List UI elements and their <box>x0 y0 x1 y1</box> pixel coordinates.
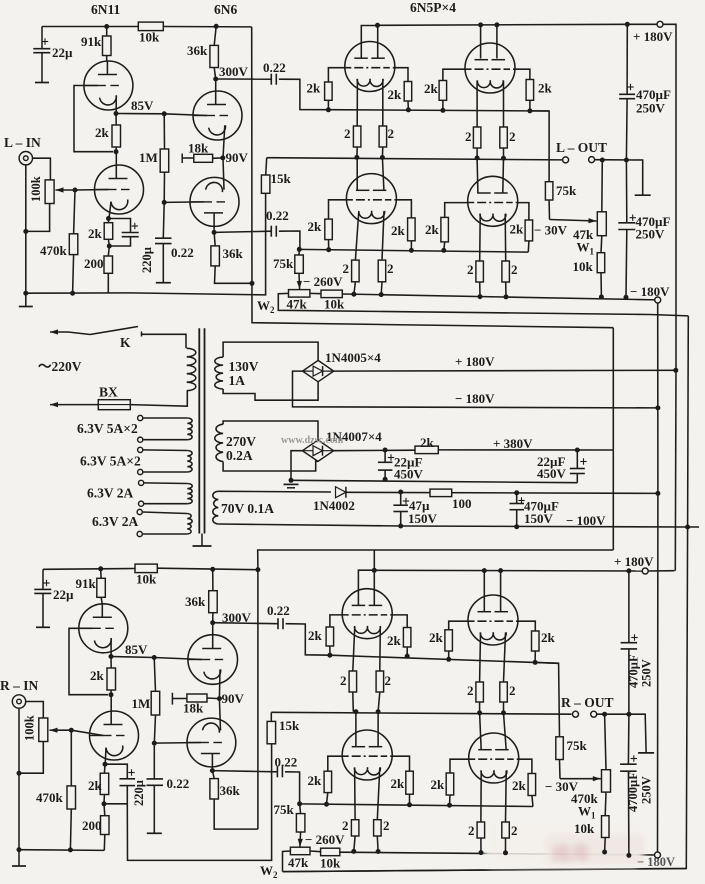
winding 130V 1A <box>215 357 223 389</box>
wire: 36k lower to B+ (R) <box>214 799 258 829</box>
junction W2 bus -100V <box>685 525 690 530</box>
svg-text:2: 2 <box>344 126 351 141</box>
svg-text:47k: 47k <box>287 297 308 312</box>
wire: L -180V cathode rail <box>342 294 657 300</box>
svg-text:− 100V: − 100V <box>566 513 606 528</box>
terminal L-OUT a <box>563 157 569 163</box>
junction V1b cathode <box>106 216 111 221</box>
svg-text:2k: 2k <box>387 633 402 648</box>
wiper arrow W2 (L) <box>298 273 301 289</box>
wiper arrow W1 (L) <box>550 220 597 222</box>
wire: 0.22 to top grid rail <box>279 79 328 110</box>
svg-text:2k: 2k <box>308 219 323 234</box>
svg-text:2: 2 <box>509 129 516 144</box>
junction 470uF bottom <box>624 295 629 300</box>
wire: V9 cathode leads <box>354 768 357 820</box>
junction V3 plate/rail <box>375 23 380 28</box>
junction V2b grid node (R) <box>152 741 157 746</box>
wire: R B+ rail top <box>43 568 135 571</box>
wire: +380V rail <box>334 449 415 452</box>
svg-text:150V: 150V <box>408 511 438 526</box>
wire: V4 cathode leads <box>476 81 478 128</box>
svg-text:100k: 100k <box>23 715 37 741</box>
wire: V7 right grid <box>392 615 407 628</box>
junction -100V bus <box>655 491 660 496</box>
junction 2k/200 (R) <box>102 801 107 806</box>
wire: R channel B+ feed <box>258 550 614 570</box>
resistor 2 V4 cathode left <box>473 127 481 148</box>
svg-text:130V: 130V <box>229 359 259 374</box>
capacitor 0.22 coupling (R upper) <box>213 623 278 624</box>
resistor 2k V1b cathode <box>108 219 110 223</box>
wire: jack to pot <box>33 158 51 180</box>
resistor 36k (L lower) <box>214 232 215 246</box>
capacitor 470uF 150V (psu) <box>516 493 518 504</box>
tube 6N5P V3 (L top-left) <box>345 42 395 92</box>
resistor 18k (R) <box>171 693 173 705</box>
svg-text:450V: 450V <box>394 467 424 482</box>
resistor 2 V5 cathode left <box>352 260 360 282</box>
svg-text:2k: 2k <box>90 668 105 683</box>
resistor 2k V1a cathode (R) <box>110 657 112 669</box>
junction V4 cathodes out rail <box>475 156 480 161</box>
junction 91k top <box>104 24 109 29</box>
svg-text:470k: 470k <box>36 790 64 805</box>
wire: +380V rail right <box>438 449 613 451</box>
wire: V2a cathode to 90V (R) <box>218 670 221 699</box>
resistor 2k V9 left grid <box>324 771 332 792</box>
resistor 2k V1b cathode (R) <box>103 764 106 773</box>
wire: V3 plate leads <box>361 26 377 59</box>
svg-text:2: 2 <box>385 673 392 688</box>
svg-text:2: 2 <box>342 818 349 833</box>
junction 85V node (R) <box>109 654 114 659</box>
svg-text:200: 200 <box>82 818 102 833</box>
junction -180V bus / PSU <box>655 405 660 410</box>
svg-text:2: 2 <box>511 823 518 838</box>
wire: V4 right grid <box>515 69 530 79</box>
svg-text:− 260V: − 260V <box>305 832 345 847</box>
resistor 2k V8 left grid <box>445 630 453 651</box>
junction V1b cathode (R) <box>103 762 108 767</box>
wire: L ground rail to 15k <box>26 193 266 295</box>
wire: L B+ drop to PSU +380V <box>252 27 614 328</box>
wire: -100V bottom rail <box>218 524 699 527</box>
resistor 2k V10 right grid <box>528 774 536 796</box>
svg-text:22µ: 22µ <box>52 45 73 60</box>
ground bridge2 <box>284 483 299 485</box>
svg-text:18k: 18k <box>188 140 209 155</box>
junction V8 lgrid <box>446 657 451 662</box>
resistor 10k (R W1 leg) <box>604 792 607 816</box>
junction 47u top <box>398 490 403 495</box>
svg-text:200: 200 <box>84 256 104 271</box>
wire: V3 cathode leads <box>356 79 358 126</box>
resistor 10k (L plate decoupling) <box>138 22 163 31</box>
junction 22uF-1 top <box>383 448 388 453</box>
tube V2b 6N6 lower inverted (R) <box>187 718 236 767</box>
junction 470uF mid (R) <box>626 712 631 717</box>
svg-text:2: 2 <box>465 129 472 144</box>
bridge rectifier 1N4005x4 <box>303 360 334 381</box>
junction V4 right grid rail <box>527 108 532 113</box>
svg-text:15k: 15k <box>271 171 292 186</box>
capacitor 0.22 (L grid) <box>162 202 165 238</box>
transformer core <box>198 328 200 533</box>
wire: R -180V cathode rail <box>340 852 658 855</box>
capacitor 220µ (R) <box>105 764 127 778</box>
svg-text:90V: 90V <box>226 150 249 165</box>
resistor 15k (R) <box>270 712 272 721</box>
svg-text:2: 2 <box>383 818 390 833</box>
junction 470k bottom <box>70 291 75 296</box>
capacitor 0.22 grid (R) <box>153 743 155 779</box>
capacitor 470uF (L upper) <box>626 24 628 94</box>
junction wiper/470k (R) <box>69 728 74 733</box>
svg-text:0.22: 0.22 <box>171 245 194 260</box>
svg-text:6N5P×4: 6N5P×4 <box>410 0 456 15</box>
wire: 270V box top <box>223 421 318 440</box>
wire: -180V bus <box>657 303 659 852</box>
resistor 470k (R) <box>70 730 72 786</box>
wire: V2b plate lead <box>213 213 215 232</box>
wire: L output rail <box>267 158 563 160</box>
junction V4 plate rail <box>478 22 483 27</box>
winding 70V 0.1A <box>213 491 219 524</box>
junction 90V node <box>220 155 225 160</box>
resistor 2 V10 cath left <box>477 822 485 838</box>
junction V4 left grid rail <box>440 108 445 113</box>
wire: W2-left bus right edge <box>283 316 688 872</box>
resistor 2k V5 right grid <box>408 218 416 241</box>
svg-text:0.22: 0.22 <box>275 755 298 770</box>
svg-text:2k: 2k <box>308 628 323 643</box>
junction V2b grid node <box>162 200 167 205</box>
wire: 85V rail (R) <box>111 657 202 660</box>
tube V1b 6N11 lower (R) <box>90 711 139 760</box>
resistor 2 V8 cath left <box>476 682 484 702</box>
wire: R-OUT to caps node <box>597 714 646 752</box>
heater winding 4 <box>137 509 142 514</box>
capacitor 22µ (R) <box>42 569 44 589</box>
svg-text:10k: 10k <box>320 856 341 871</box>
junction V7 lgrid rail <box>327 653 332 658</box>
svg-text:75k: 75k <box>556 183 577 198</box>
junction 2k/200 <box>107 244 112 249</box>
wire: V3 left grid <box>328 68 344 82</box>
resistor 75k (L bias) <box>298 249 300 255</box>
wire: 90V to V2b cathode <box>223 158 224 190</box>
svg-text:47k: 47k <box>288 855 309 870</box>
wire: V8 right grid <box>518 621 535 631</box>
junction V2b plate node <box>212 230 217 235</box>
wire: W2 left bracket <box>278 293 688 316</box>
junction V8 plate rail <box>482 568 487 573</box>
wire: V6 cathode leads <box>479 214 482 261</box>
wire: V10 plate leads <box>480 713 482 750</box>
resistor 75k (L feedback) <box>545 182 553 200</box>
resistor 2k V3 right grid <box>404 82 412 102</box>
junction 47u bottom <box>398 524 403 529</box>
junction V7 rgrid rail <box>405 654 410 659</box>
tube 6N5P V7 (R top-left) <box>342 589 392 639</box>
svg-text:10k: 10k <box>136 572 157 587</box>
tube V1a 6N11 upper (R) <box>79 604 128 653</box>
resistor 2k V8 right grid <box>532 631 540 651</box>
resistor 2 V10 cath right <box>502 822 510 838</box>
junction V1b plate node <box>114 149 119 154</box>
wire: V1a grid to V1b plate node (R) <box>69 628 108 694</box>
diode 1N4002 <box>218 490 331 493</box>
wire: 90V to V2b cathode (R) <box>219 699 220 731</box>
svg-text:K: K <box>120 335 131 350</box>
svg-text:0.22: 0.22 <box>267 603 290 618</box>
wire: V5 right grid <box>397 200 412 218</box>
junction 470k bottom (R) <box>68 847 73 852</box>
svg-text:270V: 270V <box>226 434 256 449</box>
transformer core ground <box>201 534 203 546</box>
junction V5 lgrid rail <box>326 247 331 252</box>
junction V6 lgrid rail <box>441 248 446 253</box>
svg-text:250V: 250V <box>636 227 666 242</box>
terminal L-OUT b <box>589 157 595 163</box>
fuse BX arrow <box>50 404 74 406</box>
svg-text:36k: 36k <box>220 783 241 798</box>
svg-text:300V: 300V <box>219 64 249 79</box>
junction 36k top <box>214 24 219 29</box>
svg-text:2: 2 <box>340 673 347 688</box>
junction L ground rail <box>23 291 28 296</box>
wire: V9 right grid <box>392 756 409 771</box>
wire: V4 left grid <box>443 69 465 80</box>
ground R input <box>18 850 20 866</box>
junction 85V node <box>114 111 119 116</box>
bridge rectifier 1N4007x4 <box>302 440 333 461</box>
ground 22µ (R) <box>36 626 50 628</box>
svg-text:4700µF: 4700µF <box>626 772 640 812</box>
svg-text:+ 180V: + 180V <box>633 29 673 44</box>
svg-text:BX: BX <box>99 385 118 400</box>
wire: wiper to V1b grid <box>75 189 109 192</box>
wire: L-OUT to caps node <box>595 160 643 195</box>
tube 6N5P V8 (R top-right) <box>468 595 518 645</box>
potentiometer W1 47k (L) <box>597 212 606 236</box>
junction 36k top (R) <box>210 567 215 572</box>
potentiometer 100k (L) <box>45 180 54 204</box>
svg-text:2k: 2k <box>424 81 439 96</box>
junction V7 cath rail <box>353 709 358 714</box>
junction R feed <box>255 567 260 572</box>
resistor 2k V7 right grid <box>403 628 411 648</box>
wire: R B+ drop <box>257 570 259 829</box>
svg-text:10k: 10k <box>574 821 595 836</box>
junction 300V node (R) <box>210 620 215 625</box>
svg-text:10k: 10k <box>573 259 594 274</box>
wire: 75k to W1 wiper <box>548 200 550 220</box>
junction 75k top (R) <box>297 801 302 806</box>
wire: V5 cathode leads <box>355 211 358 260</box>
resistor 2 V6 cathode right <box>502 261 510 282</box>
capacitor 4700uF (R lower) <box>627 714 630 764</box>
resistor 1M (R) <box>154 658 155 692</box>
junction 1M top (R) <box>152 655 157 660</box>
wire: V8 left grid <box>449 621 469 630</box>
resistor 75k (R bias) <box>300 804 301 814</box>
resistor 1M (L) <box>163 114 165 149</box>
wire: L B+ rail top <box>42 26 138 28</box>
potentiometer 100k (R) <box>39 718 48 742</box>
resistor 91k (R) <box>100 569 102 579</box>
wire: V4 plate leads <box>480 25 482 59</box>
resistor 2k V7 left grid <box>326 627 334 646</box>
resistor 2k (psu) <box>415 446 438 454</box>
capacitor 22µ (L) <box>41 27 43 49</box>
junction V9 lgrid <box>324 802 329 807</box>
wire: V7 plate leads <box>358 570 374 605</box>
capacitor 47u 150V <box>400 492 402 505</box>
wire: V5 plate leads <box>356 157 358 190</box>
junction 300V node <box>213 77 218 82</box>
wire: psu box right edge <box>612 328 614 550</box>
svg-text:2k: 2k <box>420 435 435 450</box>
wiper arrow W2 (R) <box>299 832 302 847</box>
junction 2k/grid rail r <box>406 107 411 112</box>
svg-text:2: 2 <box>468 823 475 838</box>
svg-text:10k: 10k <box>139 30 160 45</box>
junction 91k top (R) <box>98 566 103 571</box>
tube 6N5P V4 (L top-right) <box>465 43 515 93</box>
wire: 1M to V2b grid (R) <box>154 742 201 745</box>
junction V7 plate/rail <box>372 568 377 573</box>
svg-text:6.3V 5A×2: 6.3V 5A×2 <box>80 454 141 469</box>
svg-text:2k: 2k <box>541 630 556 645</box>
wire: pot cold end (R) <box>19 742 43 774</box>
svg-text:15k: 15k <box>279 718 300 733</box>
svg-text:0.2A: 0.2A <box>226 448 253 463</box>
ground L input <box>25 293 27 306</box>
capacitor 22uF 450V (1) <box>384 450 386 462</box>
resistor 2k V10 left grid <box>446 773 454 795</box>
svg-text:470k: 470k <box>40 243 68 258</box>
resistor 2k V1a cathode <box>115 114 117 126</box>
svg-text:220µ: 220µ <box>140 247 154 273</box>
svg-text:2: 2 <box>387 261 394 276</box>
svg-text:2: 2 <box>343 261 350 276</box>
resistor 2 V9 cath right <box>374 820 382 836</box>
junction V5 cathodes -180 rail <box>351 292 356 297</box>
svg-text:470µF: 470µF <box>627 654 641 688</box>
junction bridge2 minus rail <box>289 478 294 483</box>
fuse BX <box>74 404 98 406</box>
junction W1 top (R) <box>602 712 607 717</box>
watermark logo blur <box>484 816 645 868</box>
resistor 100 (psu) <box>430 489 452 497</box>
wiper arrow 100k (L) <box>56 189 76 191</box>
svg-text:L – OUT: L – OUT <box>556 140 607 155</box>
svg-text:100k: 100k <box>29 176 43 202</box>
wire: V1b cathode lead (R) <box>104 748 107 765</box>
svg-text:85V: 85V <box>125 642 148 657</box>
ground R-OUT return <box>638 752 654 754</box>
resistor 15k (L) <box>266 158 267 175</box>
junction V8 cath rail <box>477 710 482 715</box>
svg-text:6N6: 6N6 <box>214 2 237 17</box>
junction 2k/grid rail <box>326 107 331 112</box>
svg-text:36k: 36k <box>223 246 244 261</box>
resistor 10k (L bias) <box>310 292 321 294</box>
wire: 1M to V2b grid <box>164 201 204 204</box>
resistor 2k V4 right grid <box>526 80 534 101</box>
svg-text:www.dzsc.com: www.dzsc.com <box>281 435 344 446</box>
potentiometer W1 470k (R) <box>602 770 611 792</box>
wire: bridge1 minus to -180V line <box>293 371 658 408</box>
tube V1a 6N11 upper <box>84 61 133 110</box>
junction 10k bottom (R) <box>602 850 607 855</box>
svg-text:6.3V 2A: 6.3V 2A <box>87 486 134 501</box>
wire: V6 right grid <box>518 203 529 220</box>
junction 470uF mid <box>624 158 629 163</box>
junction V2b plate node (R) <box>210 768 215 773</box>
heater winding 2 <box>138 447 143 452</box>
svg-text:0.22: 0.22 <box>263 60 286 75</box>
svg-text:1M: 1M <box>139 150 158 165</box>
resistor 91k (L) <box>106 27 108 37</box>
svg-text:2k: 2k <box>308 773 323 788</box>
junction V5 rgrid rail <box>409 248 414 253</box>
wire: 70V rail <box>346 492 658 493</box>
junction 470uF psu top <box>514 490 519 495</box>
resistor 2 V8 cath right <box>500 682 508 702</box>
wire: R W2 return rail <box>283 869 687 872</box>
junction 470uF psu bottom <box>514 524 519 529</box>
resistor 36k (L upper) <box>214 26 216 45</box>
wire: V10 cathode leads <box>480 771 482 823</box>
svg-text:150V: 150V <box>524 511 554 526</box>
tube 6N5P V6 (L bottom-right) <box>468 176 518 226</box>
resistor 2 V6 cathode left <box>476 261 484 282</box>
capacitor 220µ (L) <box>109 219 131 233</box>
wire: R +180 corner <box>648 570 674 572</box>
svg-text:6N11: 6N11 <box>91 2 121 17</box>
svg-text:2: 2 <box>467 262 474 277</box>
resistor 2 V9 cath left <box>351 820 359 836</box>
svg-text:2k: 2k <box>95 125 110 140</box>
junction V10 lgrid <box>447 803 452 808</box>
capacitor 0.22 coupling (R lower) <box>212 771 277 772</box>
input jack L-IN <box>19 152 32 165</box>
wire: R quad +180 feed stub <box>373 550 375 570</box>
svg-text:75k: 75k <box>274 802 295 817</box>
wire: R output rail <box>271 712 571 714</box>
svg-text:2k: 2k <box>88 226 103 241</box>
ground 0.22 (R) <box>147 832 162 834</box>
wire: V9 plate leads <box>355 712 357 747</box>
junction 22uF-1 bottom <box>383 477 388 482</box>
tube 6N5P V9 (R bottom-left) <box>342 730 392 780</box>
winding 270V 0.2A <box>215 424 223 461</box>
capacitor 0.22 coupling (L upper) <box>216 78 272 80</box>
wire: R bottom grid rail <box>300 804 533 807</box>
svg-text:0.22: 0.22 <box>167 776 190 791</box>
junction V3 cathodes to out rail <box>354 155 359 160</box>
tube V1b 6N11 lower <box>95 165 144 214</box>
junction V1b plate node (R) <box>109 692 114 697</box>
wire: 0.22 to top grid rail (R) <box>286 624 330 656</box>
wire: V9 left grid <box>328 756 343 771</box>
tube V2a 6N6 upper <box>193 91 242 140</box>
wire: V1a grid to V1b plate node <box>74 86 113 152</box>
svg-text:2: 2 <box>509 683 516 698</box>
